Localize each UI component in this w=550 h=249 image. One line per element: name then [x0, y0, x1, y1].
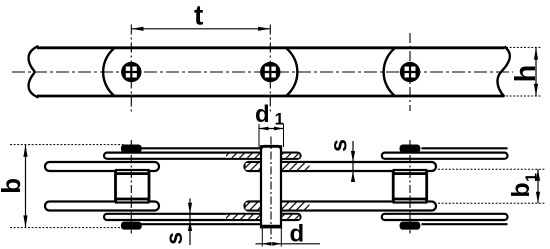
pin 2 (sectioned joint pin)	[261, 137, 281, 241]
inner plate top (span pin2-pin3)	[245, 162, 437, 171]
pin head cap bottom	[400, 222, 419, 229]
pin head cap bottom	[122, 222, 141, 229]
guide bar line top (from pin1 cap to pin2)	[141, 147, 262, 149]
left break line	[29, 46, 39, 98]
outer plate pair bottom (span pin1-pin2)	[104, 214, 301, 220]
hatch outer plate top	[226, 154, 300, 158]
inner plate bottom (span pin2-pin3)	[245, 202, 437, 211]
chain horizontal centerline	[12, 71, 513, 73]
dimension d1	[259, 124, 284, 147]
pin 3 centerline	[409, 140, 411, 234]
outer plate pair bottom (span pin3-right)	[382, 214, 508, 220]
svg-text:1: 1	[524, 173, 541, 182]
dimension h extension lines	[506, 47, 542, 96]
svg-text:d: d	[255, 101, 270, 128]
svg-text:s: s	[326, 139, 352, 152]
bushing flange bottom	[116, 198, 149, 203]
pin 1	[121, 62, 141, 82]
guide bar line bottom (from pin1 cap to pin2)	[141, 223, 262, 225]
roller	[116, 174, 150, 199]
label b1	[507, 173, 541, 198]
pin 3	[400, 62, 420, 82]
bushing flange bottom	[394, 198, 427, 203]
outer plate pair top (span pin3-right)	[382, 153, 508, 159]
guide bar line top (from pin3 cap to right)	[422, 147, 508, 149]
plate end arc left of pin 1	[103, 48, 114, 96]
pin 3 vertical centerline	[409, 33, 411, 111]
pin 2	[260, 62, 280, 82]
pin 2 vertical centerline	[269, 25, 271, 114]
plate end arc left of pin 3	[384, 48, 395, 96]
dimension b1	[438, 169, 545, 203]
inner plate top (span left-pin1)	[45, 162, 159, 171]
svg-text:b: b	[0, 178, 26, 194]
outer plate pair top (span pin1-pin2)	[104, 153, 301, 159]
pin head cap top	[122, 145, 141, 152]
svg-text:s: s	[161, 232, 187, 245]
inner plate bottom (span left-pin1)	[45, 202, 159, 211]
pin 1 roller assembly	[116, 140, 150, 234]
chain top outline	[37, 46, 505, 49]
hatch outer plate bottom	[226, 215, 300, 219]
pin 2 centerline	[270, 137, 272, 241]
dimension b	[10, 145, 129, 228]
bushing flange top	[116, 170, 149, 175]
dimension d	[256, 228, 321, 247]
dimension t	[131, 27, 270, 31]
pin 1 centerline	[130, 140, 132, 234]
chain bottom outline	[37, 95, 505, 98]
svg-text:d: d	[290, 221, 305, 248]
dimension s (bottom plate, at x=190)	[188, 199, 192, 246]
pin head cap top	[400, 145, 419, 152]
plate end arc right of pin 2	[286, 48, 297, 96]
bushing flange top	[394, 170, 427, 175]
dimension h line	[534, 47, 538, 96]
pin 3 roller assembly	[393, 140, 427, 234]
roller	[393, 174, 427, 199]
hatch inner plate top	[246, 163, 310, 170]
pin 1 vertical centerline	[130, 25, 132, 114]
guide bar line bottom (from pin3 cap to right)	[422, 223, 508, 225]
svg-text:1: 1	[275, 110, 284, 129]
hatch inner plate bottom	[246, 203, 310, 210]
svg-text:b: b	[507, 182, 535, 197]
svg-text:t: t	[194, 0, 203, 30]
label d1	[255, 101, 284, 129]
dimension s (top plate, at x=353)	[351, 141, 355, 182]
svg-text:h: h	[510, 65, 542, 83]
right break line	[497, 47, 509, 97]
